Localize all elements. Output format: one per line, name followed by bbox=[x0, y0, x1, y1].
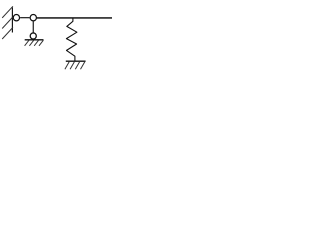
pin A (at wall) bbox=[13, 15, 19, 21]
ground line under pin C bbox=[25, 39, 44, 41]
wall hatch 2 bbox=[2, 17, 13, 29]
ground S hatch 3 bbox=[75, 62, 79, 69]
spring bbox=[66, 18, 77, 61]
ground C hatch 4 bbox=[39, 40, 43, 46]
ground C hatch 1 bbox=[25, 40, 29, 46]
link B-C bbox=[32, 21, 34, 33]
link A-B bbox=[20, 17, 30, 19]
ground S hatch 4 bbox=[81, 62, 85, 69]
ground C hatch 3 bbox=[34, 40, 38, 46]
wall hatch 3 bbox=[2, 27, 13, 39]
beam bbox=[37, 17, 112, 19]
ground S hatch 1 bbox=[65, 62, 69, 69]
wall hatch 1 bbox=[2, 6, 13, 18]
wall bbox=[11, 7, 13, 32]
pin C (support) bbox=[30, 33, 36, 39]
ground C hatch 2 bbox=[29, 40, 33, 46]
ground line under spring bbox=[66, 60, 86, 62]
ground S hatch 2 bbox=[70, 62, 74, 69]
pin B bbox=[30, 15, 36, 21]
